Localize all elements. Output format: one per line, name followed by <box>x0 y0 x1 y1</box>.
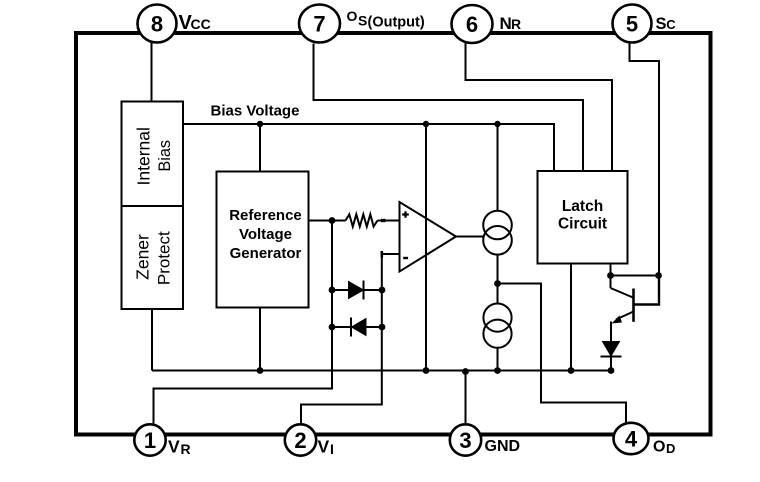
svg-text:C: C <box>666 17 676 32</box>
svg-text:Voltage: Voltage <box>239 226 292 243</box>
wire Reference Generator bottom lead <box>259 308 261 371</box>
svg-text:I: I <box>330 441 334 457</box>
wire right rail minus input to pin2 VI <box>301 254 400 425</box>
wire ground rail <box>152 370 611 372</box>
wire latch bottom to ground rail <box>570 264 572 371</box>
diode D1 <box>332 281 382 300</box>
block Zener Protect <box>122 206 184 309</box>
node bias-current source <box>494 121 500 127</box>
node D1 anode <box>329 287 336 294</box>
pin 8 circle <box>138 5 177 43</box>
block Internal Bias <box>122 102 184 207</box>
svg-text:CC: CC <box>191 16 211 32</box>
node latch-transistor <box>607 272 614 279</box>
current source CS2 <box>483 304 511 348</box>
wire left rail node to pin1 VR <box>154 221 333 425</box>
wire transistor top tie <box>611 275 659 277</box>
wire op-amp crossing redraw <box>425 202 427 272</box>
transistor Q1 <box>611 276 660 343</box>
svg-text:R: R <box>181 441 191 457</box>
svg-text:1: 1 <box>144 428 156 453</box>
node SC-base <box>655 272 662 279</box>
pin 1 circle <box>134 424 165 455</box>
svg-text:Bias Voltage: Bias Voltage <box>211 103 300 120</box>
wire current source top riser <box>497 124 499 211</box>
svg-text:S: S <box>656 15 667 33</box>
pin 2 circle <box>285 424 316 455</box>
svg-text:8: 8 <box>151 11 163 36</box>
wire current source node to pin4 OD <box>498 284 627 424</box>
wire pin3 GND riser <box>465 371 467 425</box>
wire pin7 OS to latch <box>314 44 584 172</box>
svg-text:Generator: Generator <box>230 245 302 262</box>
block Latch Circuit <box>538 171 628 264</box>
wire resistor to op-amp plus input <box>378 220 400 222</box>
svg-text:Zener: Zener <box>133 234 153 280</box>
wire pin5 SC riser <box>630 43 660 276</box>
svg-text:V: V <box>168 437 180 457</box>
svg-text:V: V <box>318 437 330 457</box>
node bias-crossing <box>423 121 429 127</box>
wire latch bottom to transistor node <box>610 264 612 276</box>
node rail-pin3 <box>462 368 469 375</box>
wire current source bottom lead <box>497 348 499 371</box>
node bias-refgen <box>257 121 263 127</box>
node rail-crossing <box>423 367 430 374</box>
svg-text:Circuit: Circuit <box>558 215 607 232</box>
node rail-current source <box>494 367 501 374</box>
pin 6 circle <box>452 5 493 43</box>
resistor R1 <box>346 214 378 226</box>
diode D2 <box>332 318 382 337</box>
wire pin8 riser to Internal Bias <box>151 43 153 102</box>
pin 7 circle <box>299 5 340 43</box>
svg-text:Bias: Bias <box>156 140 174 172</box>
svg-text:Reference: Reference <box>229 207 302 224</box>
svg-text:3: 3 <box>459 428 471 453</box>
current source CS1 <box>483 211 512 255</box>
svg-text:D: D <box>666 441 675 456</box>
wire pin6 NR to latch <box>466 43 613 171</box>
node between current sources <box>494 280 501 287</box>
wire op-amp bias crossing line <box>425 124 427 371</box>
svg-text:2: 2 <box>294 428 306 453</box>
node D1 cathode <box>379 287 386 294</box>
svg-text:(Output): (Output) <box>368 14 425 30</box>
op-amp minus input tick <box>380 251 383 258</box>
pin 5 circle <box>613 5 652 43</box>
svg-text:S: S <box>358 12 367 28</box>
svg-text:R: R <box>511 16 521 32</box>
wire between current sources <box>497 255 499 304</box>
svg-text:N: N <box>500 14 512 33</box>
svg-text:4: 4 <box>625 426 638 451</box>
node rail-refgen <box>257 367 264 374</box>
svg-text:6: 6 <box>466 12 478 37</box>
resistor R1 tap dash <box>381 219 385 222</box>
node resistor-left rail <box>329 217 336 224</box>
svg-text:Internal: Internal <box>134 127 154 185</box>
svg-text:O: O <box>347 8 358 24</box>
svg-text:7: 7 <box>313 11 325 36</box>
pin 3 circle <box>450 424 481 455</box>
wire Bias Voltage rail <box>183 124 554 171</box>
wire Reference Generator top lead <box>259 124 261 172</box>
op-amp comparator U1 <box>400 202 457 272</box>
pin 4 circle <box>614 423 649 454</box>
wire op-amp output to current source <box>456 236 484 238</box>
svg-text:GND: GND <box>485 438 521 455</box>
svg-text:Latch: Latch <box>562 198 603 215</box>
diode D3 <box>601 342 622 371</box>
svg-text:5: 5 <box>626 11 638 36</box>
IC package border <box>76 33 711 435</box>
wire Zener Protect bottom lead <box>151 309 153 371</box>
block Reference Voltage Generator <box>217 172 309 308</box>
svg-text:O: O <box>653 439 665 456</box>
svg-text:Protect: Protect <box>155 231 174 285</box>
node D2 anode <box>379 324 386 331</box>
node rail-latch <box>568 367 575 374</box>
node rail-diode D3 <box>608 367 615 374</box>
node D2 cathode <box>329 324 336 331</box>
wire Reference Generator output to resistor node <box>309 220 346 222</box>
